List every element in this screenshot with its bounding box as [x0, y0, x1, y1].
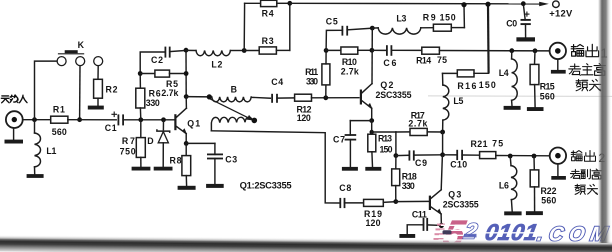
node L3/C5 junction: [370, 26, 375, 31]
node switch pole junction: [77, 117, 82, 122]
svg-text:R21: R21: [471, 139, 488, 149]
transistor Q3: [429, 155, 479, 226]
svg-text:330: 330: [146, 98, 160, 108]
svg-text:R6: R6: [149, 89, 161, 99]
svg-text:R15: R15: [540, 81, 555, 91]
label 去主高 (to main tuner): [569, 64, 606, 76]
capacitor C1: [105, 112, 123, 134]
ground (antenna connector): [5, 128, 24, 144]
wire (switch right pole to R2): [97, 66, 99, 80]
resistor R13: [368, 121, 393, 167]
capacitor C5: [326, 17, 373, 51]
svg-text:R4: R4: [262, 9, 274, 19]
node C9/C10/Q3 junction: [440, 152, 445, 157]
svg-text:150: 150: [440, 13, 456, 23]
node D junction: [161, 117, 166, 122]
resistor R17: [396, 111, 443, 136]
transformer B tuning arrow: [210, 99, 257, 123]
svg-text:330: 330: [402, 181, 415, 191]
wire (to Q3 base): [396, 200, 429, 202]
resistor R9: [423, 5, 465, 32]
+12V terminal: [539, 1, 573, 19]
capacitor C4: [271, 77, 283, 103]
capacitor C0: [506, 4, 531, 38]
transistor Q2: [360, 80, 412, 121]
node antenna junction: [32, 117, 37, 122]
svg-text:120: 120: [297, 113, 311, 123]
inductor L4: [499, 51, 518, 106]
svg-text:R14: R14: [416, 55, 431, 65]
node R15 junction: [533, 48, 538, 53]
capacitor C9: [396, 150, 443, 168]
label 输出1 (output 1): [571, 44, 608, 60]
node R10/C6 junction: [370, 48, 375, 53]
wire (B primary to C4): [251, 96, 270, 99]
svg-text:330: 330: [306, 76, 318, 86]
resistor R19: [345, 199, 396, 228]
svg-text:C5: C5: [326, 17, 338, 27]
ground (R15): [527, 107, 544, 111]
svg-text:560: 560: [52, 127, 67, 137]
svg-text:L2: L2: [211, 60, 222, 70]
inductor L1: [35, 120, 57, 167]
node rail/drop junction: [485, 2, 490, 7]
svg-text:L5: L5: [453, 96, 463, 106]
wire (feedback line from B secondary): [211, 131, 339, 203]
resistor R10: [326, 47, 372, 76]
svg-text:+12V: +12V: [549, 7, 573, 18]
node L6 junction: [508, 154, 513, 159]
svg-text:Q3: Q3: [448, 190, 461, 200]
node L4 junction: [509, 48, 514, 53]
svg-text:120: 120: [366, 218, 381, 228]
svg-text:C7: C7: [333, 134, 345, 144]
svg-text:K: K: [78, 40, 85, 50]
label 天线入 (antenna input): [1, 95, 27, 103]
svg-text:L6: L6: [499, 181, 509, 191]
node R18/R19/Q3 base junction: [393, 199, 398, 204]
wire (collector bus x186): [185, 50, 187, 97]
node R4 top rail junction: [287, 1, 292, 6]
scanner shadow band (bottom): [0, 235, 612, 252]
zener diode D: [147, 120, 169, 167]
resistor R22: [530, 156, 556, 211]
scanner shadow (right edge): [598, 0, 611, 243]
wire (R12 to Q2 base): [312, 97, 359, 99]
resistor R21: [471, 139, 550, 159]
svg-text:2.7k: 2.7k: [341, 66, 359, 76]
svg-text:2.7k: 2.7k: [161, 88, 178, 98]
label 频头 (tuner): [575, 184, 597, 194]
wire (antenna to R1): [23, 119, 51, 121]
transformer B secondary winding: [211, 117, 252, 131]
node Q2 base junction: [323, 95, 328, 100]
wire (junction up to switch): [35, 61, 57, 120]
node Q2 emitter junction: [369, 118, 374, 123]
node R6/R7 junction: [138, 117, 143, 122]
ground (output 1): [551, 59, 566, 74]
wire (Q2 collector bus x372): [371, 28, 373, 84]
transformer B primary winding: [212, 84, 251, 101]
svg-text:C9: C9: [415, 158, 427, 168]
ground (L1): [27, 167, 44, 178]
svg-text:L3: L3: [396, 14, 406, 24]
wire (+12V drop to R16): [487, 4, 490, 73]
svg-text:R8: R8: [170, 156, 182, 166]
node R9 rail junction: [461, 2, 466, 7]
node C2/R5/R6 junction: [138, 71, 143, 76]
resistor R12: [295, 94, 312, 123]
svg-text:Q1: Q1: [187, 118, 200, 128]
resistor R16: [443, 70, 496, 91]
capacitor C10: [443, 150, 480, 170]
svg-text:R1: R1: [53, 104, 65, 114]
ground (R2): [88, 98, 104, 109]
svg-text:R2: R2: [106, 85, 118, 95]
svg-text:L1: L1: [46, 146, 56, 156]
wire (Q1 emitter to C3): [186, 142, 215, 144]
ground (R8): [178, 186, 196, 190]
svg-text:B: B: [231, 84, 237, 94]
node Q1 collector junction: [184, 94, 189, 99]
capacitor C8: [339, 183, 351, 208]
svg-text:75: 75: [492, 139, 503, 149]
inductor L3: [372, 14, 433, 35]
label 频头 (tuner): [576, 79, 601, 91]
node C9 line left junction: [394, 153, 399, 158]
ground (output 2): [551, 164, 566, 180]
capacitor C6: [372, 45, 397, 68]
svg-text:C4: C4: [271, 77, 283, 87]
node Q2 emitter/R13 junction: [370, 130, 374, 134]
wire (C1 to Q1 base): [123, 119, 174, 121]
transistor Q1: [174, 97, 200, 144]
svg-text:Q2: Q2: [380, 80, 393, 90]
resistor R4: [244, 0, 290, 50]
svg-text:R22: R22: [541, 186, 557, 196]
label 输出2 (output 2): [571, 150, 605, 164]
svg-text:D: D: [147, 136, 153, 146]
svg-text:C10: C10: [450, 160, 467, 170]
svg-text:2SC3355: 2SC3355: [443, 199, 479, 209]
svg-text:L4: L4: [499, 68, 509, 78]
resistor R8: [170, 143, 191, 185]
ground (C0): [516, 37, 535, 41]
svg-text:R16: R16: [457, 81, 476, 91]
wire (L5 node down to C9/C10 line): [442, 132, 444, 155]
resistor R1: [51, 104, 68, 136]
svg-text:C8: C8: [339, 183, 351, 193]
resistor R3: [244, 36, 290, 54]
svg-text:C11: C11: [412, 209, 427, 219]
output 2 connector: [550, 148, 566, 164]
node Q3 emitter junction: [439, 223, 444, 228]
wire (switch middle pole down to main line): [79, 66, 81, 120]
wire (+12V top rail): [290, 2, 540, 5]
resistor R6: [136, 74, 161, 120]
capacitor C2: [140, 47, 186, 74]
label 去副高 (to secondary tuner): [570, 169, 601, 179]
wire (R1 to C1): [68, 119, 116, 121]
resistor R15: [530, 51, 555, 107]
antenna input connector J1: [6, 111, 23, 128]
wire (Q1 collector to transformer B): [186, 96, 209, 98]
wire (C4 to R12): [277, 97, 295, 99]
svg-text:C1: C1: [105, 123, 117, 133]
ground (R22): [526, 211, 543, 215]
svg-text:C3: C3: [225, 154, 237, 164]
ground (R13): [365, 167, 381, 171]
resistor R14: [391, 47, 549, 65]
capacitor C3: [207, 143, 237, 184]
node C2/L2 junction: [184, 48, 189, 53]
svg-text:150: 150: [479, 80, 496, 90]
capacitor C7: [333, 121, 372, 167]
resistor R7: [120, 120, 146, 158]
ground (C3): [206, 184, 224, 188]
ground (R7): [132, 157, 151, 170]
svg-text:R13: R13: [378, 134, 392, 144]
svg-text:2SC3355: 2SC3355: [376, 90, 412, 100]
ground (L4): [504, 106, 521, 110]
resistor R2: [94, 79, 118, 98]
svg-text:C0: C0: [506, 18, 517, 28]
resistor R5: [140, 70, 186, 98]
ground (L6): [504, 211, 521, 215]
svg-text:R3: R3: [262, 36, 274, 46]
node L5/R17 junction: [440, 130, 445, 135]
node C0 rail junction: [521, 1, 526, 6]
resistor R11: [305, 50, 330, 97]
ground (C7): [342, 167, 358, 171]
node Q1 emitter junction: [184, 141, 189, 146]
ground (C11): [399, 234, 415, 238]
node R22 junction: [532, 154, 537, 159]
faint scan streak line: [428, 95, 612, 98]
svg-text:560: 560: [541, 196, 556, 206]
node C5/R10/R11 junction: [324, 48, 329, 53]
inductor L2: [186, 50, 244, 69]
svg-text:2.7k: 2.7k: [408, 118, 427, 128]
inductor L5: [443, 73, 464, 132]
svg-text:750: 750: [120, 147, 136, 157]
capacitor C11: [407, 209, 441, 234]
node R5 junction: [184, 71, 189, 76]
svg-text:C2: C2: [151, 55, 163, 65]
resistor R18: [392, 156, 417, 202]
inductor L6: [499, 156, 517, 211]
node L2/R3/R4 junction: [242, 48, 247, 53]
output 1 connector: [550, 43, 566, 59]
svg-text:Q1:2SC3355: Q1:2SC3355: [240, 180, 292, 191]
ground (D): [154, 167, 173, 171]
svg-text:560: 560: [540, 91, 555, 101]
svg-text:75: 75: [437, 55, 447, 65]
switch K: [57, 40, 103, 66]
watermark 520101.com: [434, 213, 611, 252]
wire (emitter node to R17): [372, 131, 396, 133]
wire (R17 node down to C9 line): [395, 132, 397, 156]
svg-text:150: 150: [380, 144, 393, 154]
node B primary left junction: [207, 94, 212, 99]
